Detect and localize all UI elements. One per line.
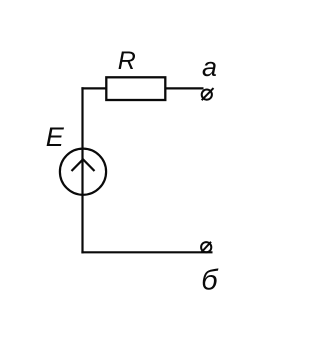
svg-text:E: E — [46, 122, 65, 152]
wire top-left horizontal segment — [81, 87, 106, 89]
svg-text:б: б — [201, 265, 219, 297]
wire resistor to terminal a — [166, 87, 204, 89]
resistor R — [106, 77, 165, 100]
svg-text:R: R — [118, 47, 136, 75]
terminal б — [201, 242, 211, 253]
EMF source E (circle) — [60, 149, 106, 195]
terminal a — [202, 88, 214, 100]
wire left vertical segment (through source) — [81, 87, 83, 253]
wire bottom horizontal — [81, 251, 212, 253]
svg-text:a: a — [202, 52, 217, 82]
EMF arrow chevron — [72, 159, 95, 171]
